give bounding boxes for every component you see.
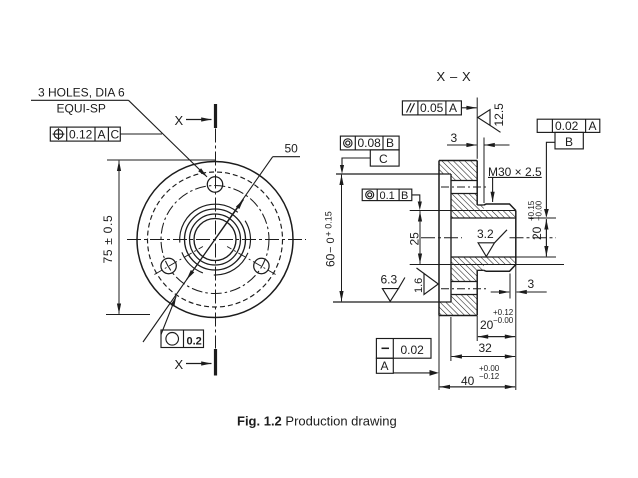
hatching mid upper [451,194,516,219]
svg-text:6.3: 6.3 [381,273,398,287]
section arrow bottom [186,363,212,365]
hatching mid lower [451,257,516,282]
groove floor top [477,204,484,206]
counterbore floor [450,174,452,302]
svg-text:− 0: − 0 [325,237,337,253]
svg-text:B: B [386,136,394,150]
ext line hub left lower [450,317,452,361]
note underline [31,99,129,101]
thread minor circle [190,214,241,265]
dim 3 top right part [485,144,510,146]
frame 0.02 A B top right [537,119,600,149]
svg-text:0.02: 0.02 [555,119,579,133]
circularity leader [161,296,176,334]
svg-text:A: A [589,119,597,133]
dim 3 top left part [447,144,477,146]
thread root line top [410,210,516,212]
svg-text:C: C [379,152,388,166]
flange bottom edge [439,315,477,317]
svg-text:+ 0.15: + 0.15 [324,211,334,236]
circularity frame 0.2 [161,330,204,348]
right end face [515,211,517,265]
outer circle dia 75 [137,162,293,318]
svg-text:X: X [175,357,184,372]
svg-text:EQUI-SP: EQUI-SP [57,102,106,116]
svg-text:3: 3 [528,277,535,291]
svg-text:X: X [175,113,184,128]
thread crest bottom [484,265,516,272]
thread major circle [185,209,246,270]
hole top [207,177,222,192]
datum B leader [546,142,555,216]
dim 20 right line [545,219,547,256]
ext line chamfer bottom [509,274,511,299]
svg-text:B: B [565,135,573,149]
surface finish 12.5 [478,110,501,133]
front view texts [38,86,298,373]
dim 3 bottom left part [491,291,510,293]
concentricity frame 0.1 B [362,189,412,201]
flange right face lower [476,270,478,315]
section texts [324,69,597,388]
surface finish 1.6 [417,268,439,295]
dia 50 arrow upper [215,199,244,239]
hole band top upper line [451,180,477,182]
dim 25 line [419,211,421,264]
relief groove arc circle [180,204,251,275]
frame connector [120,133,162,135]
hole lower-right [254,258,269,273]
svg-text:B: B [401,190,408,202]
svg-text:20: 20 [480,318,494,332]
dim 3 bottom right part [517,291,547,293]
svg-text:0.1: 0.1 [380,190,395,202]
dim 75 extension bottom [106,314,150,316]
bolt pitch circle dash-dot [161,186,269,294]
svg-text:3.2: 3.2 [477,227,494,241]
svg-text:A: A [381,359,389,373]
bore bottom line [451,256,516,258]
hole band top lower line [451,193,477,195]
vertical centerline [215,129,217,349]
svg-text:−0.00: −0.00 [493,316,514,325]
horizontal centerline [127,239,306,241]
svg-text:0.2: 0.2 [187,336,202,348]
bore top line [451,217,516,219]
flatness frame 0.02 A [376,339,431,374]
svg-text:0.08: 0.08 [358,136,382,150]
flange left face [438,161,440,316]
conc 0.1 leader [412,195,420,202]
svg-text:1.6: 1.6 [413,278,425,293]
left face extension down [438,316,440,391]
dim 75 extension top [107,159,216,161]
parallelism frame arrow [461,107,476,109]
svg-text:A: A [98,128,106,142]
flange right face upper [476,161,478,206]
svg-text:0.02: 0.02 [401,343,425,357]
svg-text:M30 × 2.5: M30 × 2.5 [488,165,542,179]
svg-text:C: C [111,128,120,142]
flange top edge [439,160,477,162]
hole lower-left [161,258,176,273]
hole band bottom lower line [451,294,477,296]
dim 32 line [452,356,515,358]
ext line groove right [483,138,485,204]
hatching flange lower [439,295,477,316]
ext line flange face lower [476,316,478,341]
datum C leader [342,158,370,166]
hidden dashed circle [148,172,283,307]
svg-text:20: 20 [530,226,544,240]
section arrow top [186,119,212,121]
M30 leader underline [488,176,542,178]
hole centerline top [441,186,489,188]
counterbore top edge [336,173,451,175]
note leader to top hole [129,100,208,177]
hatching flange upper [439,161,477,181]
surface finish 3.2 [478,230,507,257]
svg-text:12.5: 12.5 [492,103,506,127]
bore bottom ext [516,256,556,258]
surface finish 6.3 [382,278,405,302]
svg-text:A: A [449,101,457,115]
svg-text:75 ± 0.5: 75 ± 0.5 [101,215,115,264]
dim 60 line [341,175,343,302]
position tolerance frame [50,127,120,141]
dim 20+0.12 line [478,336,515,338]
svg-text:60: 60 [324,253,338,267]
hole band bottom upper line [451,281,477,283]
svg-text:0.05: 0.05 [420,101,444,115]
radial centerline lower-left hole [154,247,203,275]
dia 50 dimension line [143,157,273,342]
groove floor bottom [477,269,484,271]
svg-text:3 HOLES, DIA 6: 3 HOLES, DIA 6 [38,86,125,100]
svg-text:0.12: 0.12 [69,128,93,142]
svg-text:40: 40 [461,374,475,388]
M30 leader arrow [492,177,494,202]
svg-text:25: 25 [408,232,422,246]
right face extension down [515,265,517,391]
bore circle [194,219,236,261]
A datum leader bottom [393,372,434,374]
dim 75 line [118,161,120,314]
ext line above flange face [476,98,478,159]
counterbore bottom edge [333,301,451,303]
parallelism frame [402,101,461,115]
section mark bottom bar [214,349,217,376]
svg-text:Fig. 1.2 Production drawing: Fig. 1.2 Production drawing [237,414,397,429]
svg-text:50: 50 [285,142,299,156]
bore top ext [528,217,556,219]
svg-text:−0.12: −0.12 [479,372,500,381]
dim 40 line [440,386,515,388]
concentricity frame 0.08 B / C [340,136,399,166]
hole centerline bottom [441,288,489,290]
svg-text:32: 32 [479,341,493,355]
dia 50 arrow lower [187,240,215,280]
thread root line bottom [410,264,564,266]
svg-text:X – X: X – X [437,69,472,84]
radial centerline lower-right hole [227,247,276,275]
svg-text:3: 3 [451,131,458,145]
thread crest top [484,204,516,211]
svg-text:−0.00: −0.00 [535,200,544,221]
main axis centerline [421,237,462,239]
section mark top bar [214,104,217,128]
